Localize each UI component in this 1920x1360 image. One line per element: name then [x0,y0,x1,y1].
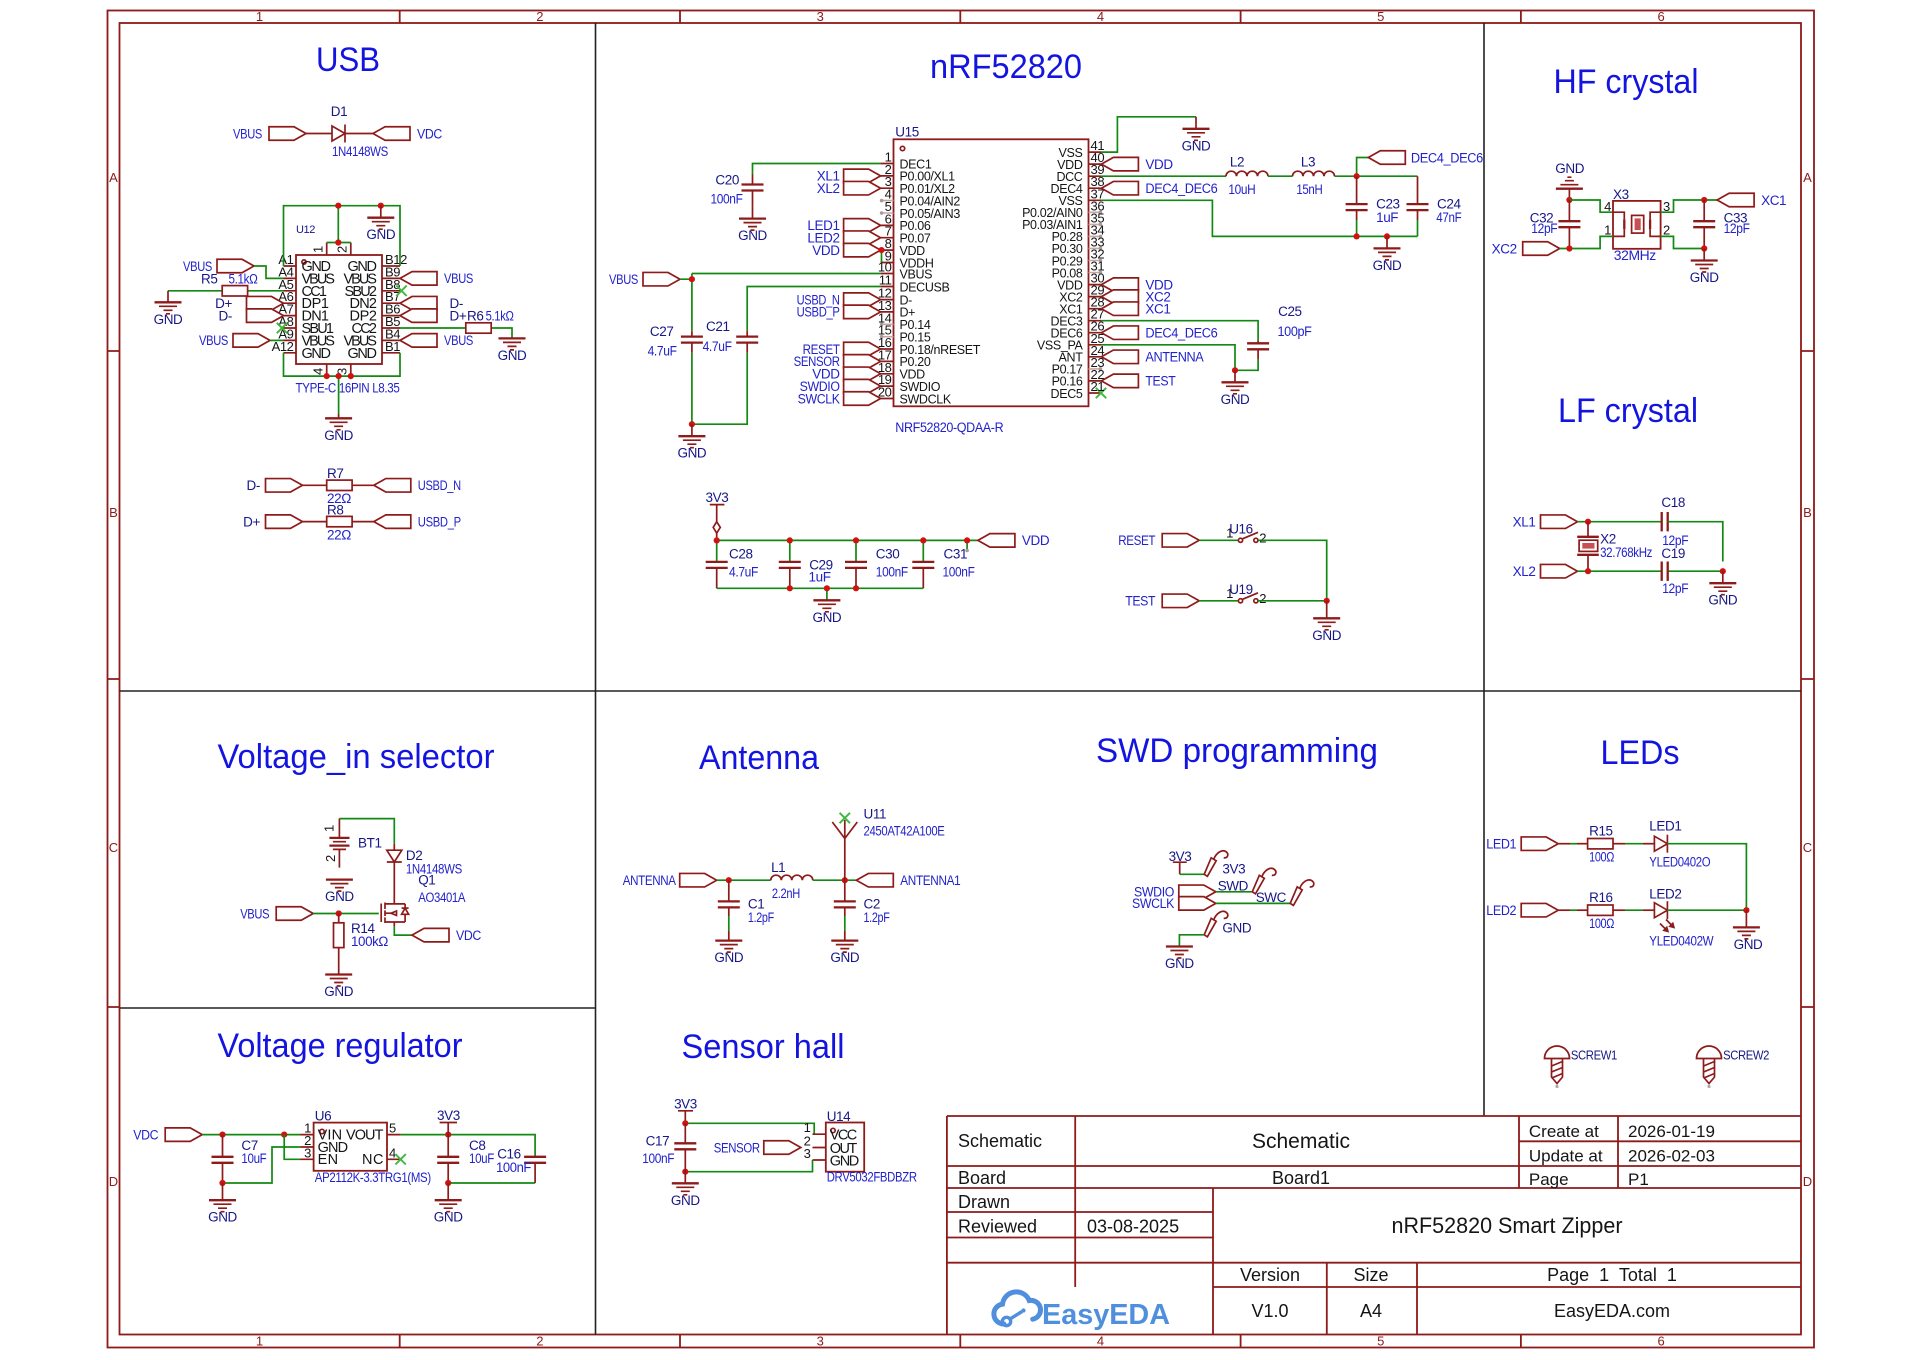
svg-text:GND: GND [154,312,183,327]
svg-text:2: 2 [335,246,350,253]
svg-text:32.768kHz: 32.768kHz [1600,545,1653,560]
svg-text:B: B [109,505,118,520]
svg-text:4: 4 [1097,1334,1104,1349]
svg-text:VDC: VDC [133,1127,159,1142]
svg-text:03-08-2025: 03-08-2025 [1087,1217,1179,1237]
svg-text:C28: C28 [729,546,753,561]
svg-text:C20: C20 [715,173,739,188]
wire VIN [202,1134,300,1136]
LED LED2 [1654,901,1667,919]
no-connect B8 [396,286,406,296]
wire bottom rail U12 [284,353,401,414]
svg-text:2026-01-19: 2026-01-19 [1628,1122,1715,1141]
svg-text:2: 2 [536,9,543,24]
net flag SENSOR (pin17) [844,355,881,369]
LED LED1 [1654,835,1667,853]
capacitor C18 [1662,512,1668,531]
svg-text:R6: R6 [467,308,483,323]
net flag TEST [1162,594,1199,608]
wire [1199,600,1238,602]
wire VSS pin37 to bottom rail [1101,200,1417,236]
svg-text:XC1: XC1 [1761,193,1786,208]
svg-text:L1: L1 [771,860,785,875]
svg-text:GND: GND [1165,956,1194,971]
svg-text:VBUS: VBUS [444,333,473,348]
resistor R5 [168,290,284,292]
screw SCREW2 [1697,1046,1722,1088]
svg-text:GND: GND [498,348,527,363]
ground (LEDs) [1745,910,1747,927]
svg-text:GND: GND [324,984,353,999]
svg-text:V1.0: V1.0 [1251,1301,1288,1321]
wire to X3 pin4 [1569,200,1613,212]
svg-text:Voltage regulator: Voltage regulator [218,1027,463,1065]
svg-text:1.2pF: 1.2pF [864,910,890,925]
wire VSS_PA pin25 [1101,345,1235,371]
wire XL1 row [1578,521,1662,523]
wire [813,879,857,881]
no-connect A8 [277,323,287,333]
svg-text:Sensor hall: Sensor hall [682,1028,845,1066]
capacitor C23 [1356,176,1358,220]
svg-text:GND: GND [1222,921,1251,936]
ground (C23/C24) [1386,236,1388,248]
svg-text:XL1: XL1 [1513,515,1536,530]
svg-text:1: 1 [1226,525,1233,540]
wire node to C23/C24 [1335,158,1418,177]
wire GND pin3 [685,1160,812,1172]
svg-text:D: D [1803,1174,1812,1189]
svg-text:5: 5 [1377,1334,1384,1349]
svg-text:1uF: 1uF [809,570,831,585]
wire [1558,843,1570,845]
svg-text:100nF: 100nF [943,565,975,580]
diode D1 [332,125,345,143]
svg-text:AP2112K-3.3TRG1(MS): AP2112K-3.3TRG1(MS) [315,1170,431,1185]
hook SWC [1290,880,1314,906]
svg-text:nRF52820 Smart Zipper: nRF52820 Smart Zipper [1392,1213,1623,1238]
svg-text:1uF: 1uF [1376,210,1398,225]
svg-text:EasyEDA: EasyEDA [1042,1299,1170,1331]
net flag D- (B7) [400,296,437,310]
svg-text:YLED0402O: YLED0402O [1649,855,1710,870]
svg-text:100nF: 100nF [711,192,743,207]
net flag SENSOR [764,1141,801,1155]
svg-text:XL2: XL2 [817,181,840,196]
svg-text:GND: GND [302,346,331,362]
svg-text:2: 2 [1663,223,1670,238]
net flag TEST (pin22) [1101,374,1138,388]
svg-text:5.1kΩ: 5.1kΩ [486,308,514,323]
wire VBUS vertical + pin10 [680,274,881,332]
net flag VDC [165,1128,202,1142]
capacitor C27 [691,331,693,353]
svg-text:Version: Version [1240,1265,1300,1285]
svg-text:SWDCLK: SWDCLK [900,392,952,406]
svg-text:C25: C25 [1278,304,1302,319]
svg-text:VDC: VDC [456,928,482,943]
svg-text:100pF: 100pF [1278,324,1312,339]
svg-text:VDD: VDD [812,243,840,258]
svg-text:C31: C31 [944,546,968,561]
resistor R7 [303,484,374,486]
net flag USBD_N (pin12) [844,293,881,307]
svg-text:SWCLK: SWCLK [798,391,840,406]
net flag RESET [1162,534,1199,548]
svg-text:SENSOR: SENSOR [714,1140,761,1155]
net flag LED2 [1521,903,1558,917]
switch U19 [1238,593,1258,603]
net flag USBD_P [374,515,411,529]
wire SWD [1216,891,1253,893]
svg-text:Schematic: Schematic [958,1131,1042,1151]
svg-text:TEST: TEST [1145,374,1175,389]
capacitor C30 [845,562,867,568]
svg-text:LEDs: LEDs [1601,734,1680,772]
net flag D+ (A6) [247,296,284,310]
ground (switches) [1326,601,1328,619]
svg-text:A4: A4 [1360,1301,1382,1321]
svg-text:C: C [109,840,118,855]
wire VSS pin41 to ground [1101,117,1196,152]
svg-text:A: A [1803,170,1812,185]
no-connect U6 pin4 [395,1154,405,1164]
svg-text:10uF: 10uF [241,1151,266,1166]
svg-text:VBUS: VBUS [609,272,638,287]
IC U15 [878,124,1106,435]
net flag XL2 [844,181,881,195]
ground (C20) [739,219,766,231]
battery BT1 [338,819,340,838]
capacitor C1 [728,880,730,916]
svg-text:VDD: VDD [1145,157,1173,172]
wire X3 pin3 to XC1 [1661,200,1718,212]
svg-text:GND: GND [677,446,706,461]
svg-text:U6: U6 [315,1109,331,1124]
svg-text:U15: U15 [895,124,919,139]
capacitor C8 [447,1135,449,1183]
net flag DEC4_DEC6 (pin26) [1101,326,1138,340]
svg-text:C21: C21 [706,319,730,334]
svg-text:100nF: 100nF [496,1160,531,1175]
net flag XC2 [1523,242,1560,256]
svg-text:Board1: Board1 [1272,1168,1330,1188]
net flag XL1 [844,169,881,183]
svg-text:GND: GND [1555,161,1584,176]
svg-text:4: 4 [1097,9,1104,24]
inductor L1 [771,875,813,880]
wire DEC3 to C25 [1101,321,1258,341]
wire [1258,540,1327,601]
net flag SWCLK (pin20) [844,392,881,406]
svg-text:VBUS: VBUS [199,333,228,348]
svg-text:D-: D- [219,308,232,323]
ground (BT1) [326,880,353,892]
svg-text:100nF: 100nF [876,565,908,580]
svg-text:U12: U12 [296,224,315,236]
crystal X2 [1587,522,1589,572]
svg-text:B1: B1 [385,339,400,354]
svg-text:EN: EN [318,1152,338,1168]
wire EN tie [284,1135,300,1160]
svg-text:1.2pF: 1.2pF [748,910,774,925]
svg-text:USB: USB [316,41,380,79]
capacitor C28 [706,562,728,568]
wire [1613,909,1625,911]
hook GND [1204,911,1228,937]
svg-text:D1: D1 [331,104,347,119]
svg-text:100Ω: 100Ω [1589,916,1614,931]
wire GND pin2 [223,1147,301,1183]
net flag VDC [412,928,449,942]
svg-text:6: 6 [1657,1334,1664,1349]
svg-text:C19: C19 [1661,546,1685,561]
svg-text:3V3: 3V3 [705,490,728,505]
svg-text:VBUS: VBUS [233,126,262,141]
wire X3 pin2 [1661,236,1705,248]
svg-text:TEST: TEST [1125,594,1155,609]
net flag XL2 [1541,564,1578,578]
wire SWC [1216,902,1290,904]
ground (U12 bottom) [338,414,340,418]
ground (R14) [325,975,352,987]
svg-text:RESET: RESET [1118,533,1155,548]
svg-text:1: 1 [256,1334,263,1349]
svg-text:GND: GND [434,1210,463,1225]
net flag LED2 [844,231,881,245]
svg-text:2026-02-03: 2026-02-03 [1628,1147,1715,1166]
net flag VDD (pin8) [844,243,881,257]
wire bottom rail [717,588,924,600]
svg-text:D: D [109,1174,118,1189]
net flag SWDIO (pin19) [844,379,881,393]
capacitor C20 [752,175,754,207]
capacitor C21 [746,331,748,353]
svg-text:3: 3 [817,9,824,24]
capacitor C29 [779,562,801,568]
svg-text:GND: GND [1221,392,1250,407]
wire [1268,175,1293,177]
svg-text:B: B [1803,505,1812,520]
svg-text:2450AT42A100E: 2450AT42A100E [864,824,945,839]
svg-text:4: 4 [389,1145,396,1160]
svg-text:ANTENNA1: ANTENNA1 [900,873,960,888]
svg-text:Update at: Update at [1529,1147,1603,1166]
svg-text:C17: C17 [646,1134,670,1149]
svg-text:1N4148WS: 1N4148WS [332,144,388,159]
svg-text:2: 2 [1259,531,1266,546]
svg-text:GND: GND [671,1193,700,1208]
svg-text:100Ω: 100Ω [1589,849,1614,864]
svg-text:3V3: 3V3 [1222,862,1245,877]
svg-text:12pF: 12pF [1531,221,1557,236]
svg-text:U14: U14 [827,1109,851,1124]
svg-text:1: 1 [322,825,337,832]
svg-text:DEC4_DEC6: DEC4_DEC6 [1145,181,1217,196]
ground (C27/C21) [691,424,693,436]
svg-text:R16: R16 [1589,890,1613,905]
wire VCC [685,1123,814,1134]
svg-text:1: 1 [1226,586,1233,601]
svg-text:VBUS: VBUS [900,267,933,281]
net flag VBUS (B9) [400,272,437,286]
net flag XC1 [1717,193,1754,207]
svg-text:YLED0402W: YLED0402W [1649,934,1714,949]
svg-text:C27: C27 [650,324,674,339]
svg-text:D+: D+ [243,514,260,529]
inductor L2 [1226,171,1268,176]
svg-text:SCREW2: SCREW2 [1723,1049,1769,1063]
svg-text:GND: GND [324,428,353,443]
section divider horizontal [120,691,1802,1008]
capacitor C16 [534,1157,536,1184]
svg-text:SWC: SWC [1256,890,1287,905]
svg-text:5: 5 [1377,9,1384,24]
wire [1258,600,1327,602]
svg-text:SWD: SWD [1218,878,1249,893]
svg-text:47nF: 47nF [1436,210,1461,225]
EasyEDA logo [994,1292,1170,1331]
svg-text:Page 1 Total 1: Page 1 Total 1 [1547,1265,1677,1285]
svg-text:XL2: XL2 [1513,564,1536,579]
net flag DEC4_DEC6 (top right) [1368,151,1405,165]
capacitor C2 [844,880,846,916]
svg-text:D+: D+ [450,308,467,323]
svg-text:EasyEDA.com: EasyEDA.com [1554,1301,1670,1321]
svg-text:1: 1 [256,9,263,24]
svg-text:GND: GND [812,610,841,625]
net flag DEC4_DEC6 (pin38) [1101,181,1138,195]
ground (C8) [447,1183,449,1200]
svg-text:L3: L3 [1301,155,1315,170]
svg-text:3V3: 3V3 [437,1108,460,1123]
svg-text:TYPE-C 16PIN L8.35: TYPE-C 16PIN L8.35 [296,381,400,396]
capacitor C7 [222,1135,224,1183]
svg-text:DEC4_DEC6: DEC4_DEC6 [1411,150,1483,165]
wire to VDC [394,926,412,935]
svg-text:4: 4 [1604,199,1611,214]
wire [1613,843,1625,845]
node top rail [335,203,341,209]
node VBUS caps rail [689,421,695,427]
svg-text:C18: C18 [1661,495,1685,510]
wire [345,133,373,135]
net flag VDD (pin18) [844,367,881,381]
svg-text:12pF: 12pF [1662,581,1688,596]
net flag ANTENNA [680,873,717,887]
net flag VBUS (pin10) [643,272,680,286]
svg-text:LED2: LED2 [1649,886,1681,901]
resistor R6 [400,328,512,338]
net flag LED1 [1521,837,1558,851]
capacitor C31 [912,562,934,568]
svg-text:A: A [109,170,118,185]
net flag VDD [978,534,1015,548]
wire pin8-pin9 [881,250,883,262]
svg-text:4: 4 [311,368,326,375]
svg-text:L2: L2 [1230,155,1244,170]
svg-text:VBUS: VBUS [240,906,269,921]
svg-text:100kΩ: 100kΩ [351,934,388,949]
net flag VBUS (A9) [233,334,270,348]
svg-text:GND: GND [830,1153,859,1169]
hook SWD [1252,868,1276,894]
ground (C25) [1234,370,1236,382]
net flag USBD_N [374,479,411,493]
net flag D- (A7) [247,309,284,323]
svg-text:5: 5 [389,1121,396,1136]
ground (C2) [831,941,858,953]
svg-text:C: C [1803,840,1812,855]
ground (C17) [684,1172,686,1184]
net flag VBUS [276,907,313,921]
net flag ANTENNA (pin24) [1101,350,1138,364]
net flag VDD (pin30) [1101,278,1138,292]
net flag VBUS (B4) [400,334,437,348]
svg-text:GND: GND [1312,628,1341,643]
capacitor C32 [1568,200,1570,249]
sensor U14 [804,1109,918,1185]
svg-text:R7: R7 [327,466,343,481]
svg-text:Reviewed: Reviewed [958,1217,1037,1237]
wire VOUT rail [401,1135,535,1157]
ground (C19) [1722,571,1724,583]
svg-text:BT1: BT1 [358,836,382,851]
svg-text:32MHz: 32MHz [1614,248,1657,263]
svg-text:Page: Page [1529,1170,1569,1189]
svg-text:Create at: Create at [1529,1122,1599,1141]
wire 3V3 rail [717,540,978,562]
svg-text:HF crystal: HF crystal [1554,63,1699,101]
svg-text:USBD_P: USBD_P [797,305,840,320]
svg-text:Drawn: Drawn [958,1192,1010,1212]
wire [1667,909,1746,911]
net flag XC2 (pin29) [1101,290,1138,304]
switch U16 [1238,532,1258,542]
net flag VDC [373,127,410,141]
svg-text:DECUSB: DECUSB [900,280,950,294]
svg-text:DRV5032FBDBZR: DRV5032FBDBZR [827,1170,918,1185]
svg-text:SWD programming: SWD programming [1096,732,1378,770]
svg-text:4.7uF: 4.7uF [703,339,732,354]
svg-text:LF crystal: LF crystal [1558,392,1698,430]
svg-text:GND: GND [1708,593,1737,608]
svg-text:DEC4_DEC6: DEC4_DEC6 [1145,326,1217,341]
inductor L3 [1293,171,1335,176]
svg-text:U11: U11 [864,807,887,822]
svg-text:GND: GND [208,1210,237,1225]
capacitor C33 [1703,200,1705,249]
svg-text:R15: R15 [1589,824,1613,839]
svg-text:C30: C30 [876,546,900,561]
ground (C7) [222,1183,224,1200]
svg-text:DEC5: DEC5 [1051,387,1083,401]
antenna U11 [832,820,857,880]
net flag D+ (R8 row) [266,515,303,529]
svg-text:NC: NC [362,1152,383,1168]
wire [1558,909,1570,911]
svg-text:R8: R8 [327,502,343,517]
capacitor C24 [1417,176,1419,220]
svg-text:22Ω: 22Ω [327,527,351,542]
wire [254,266,284,278]
svg-text:R5: R5 [201,272,217,287]
wire gate [313,913,379,915]
svg-text:1: 1 [311,246,326,253]
net flag USBD_P (pin13) [844,305,881,319]
regulator U6 [300,1109,431,1186]
net flag VBUS (A4) [217,259,254,273]
